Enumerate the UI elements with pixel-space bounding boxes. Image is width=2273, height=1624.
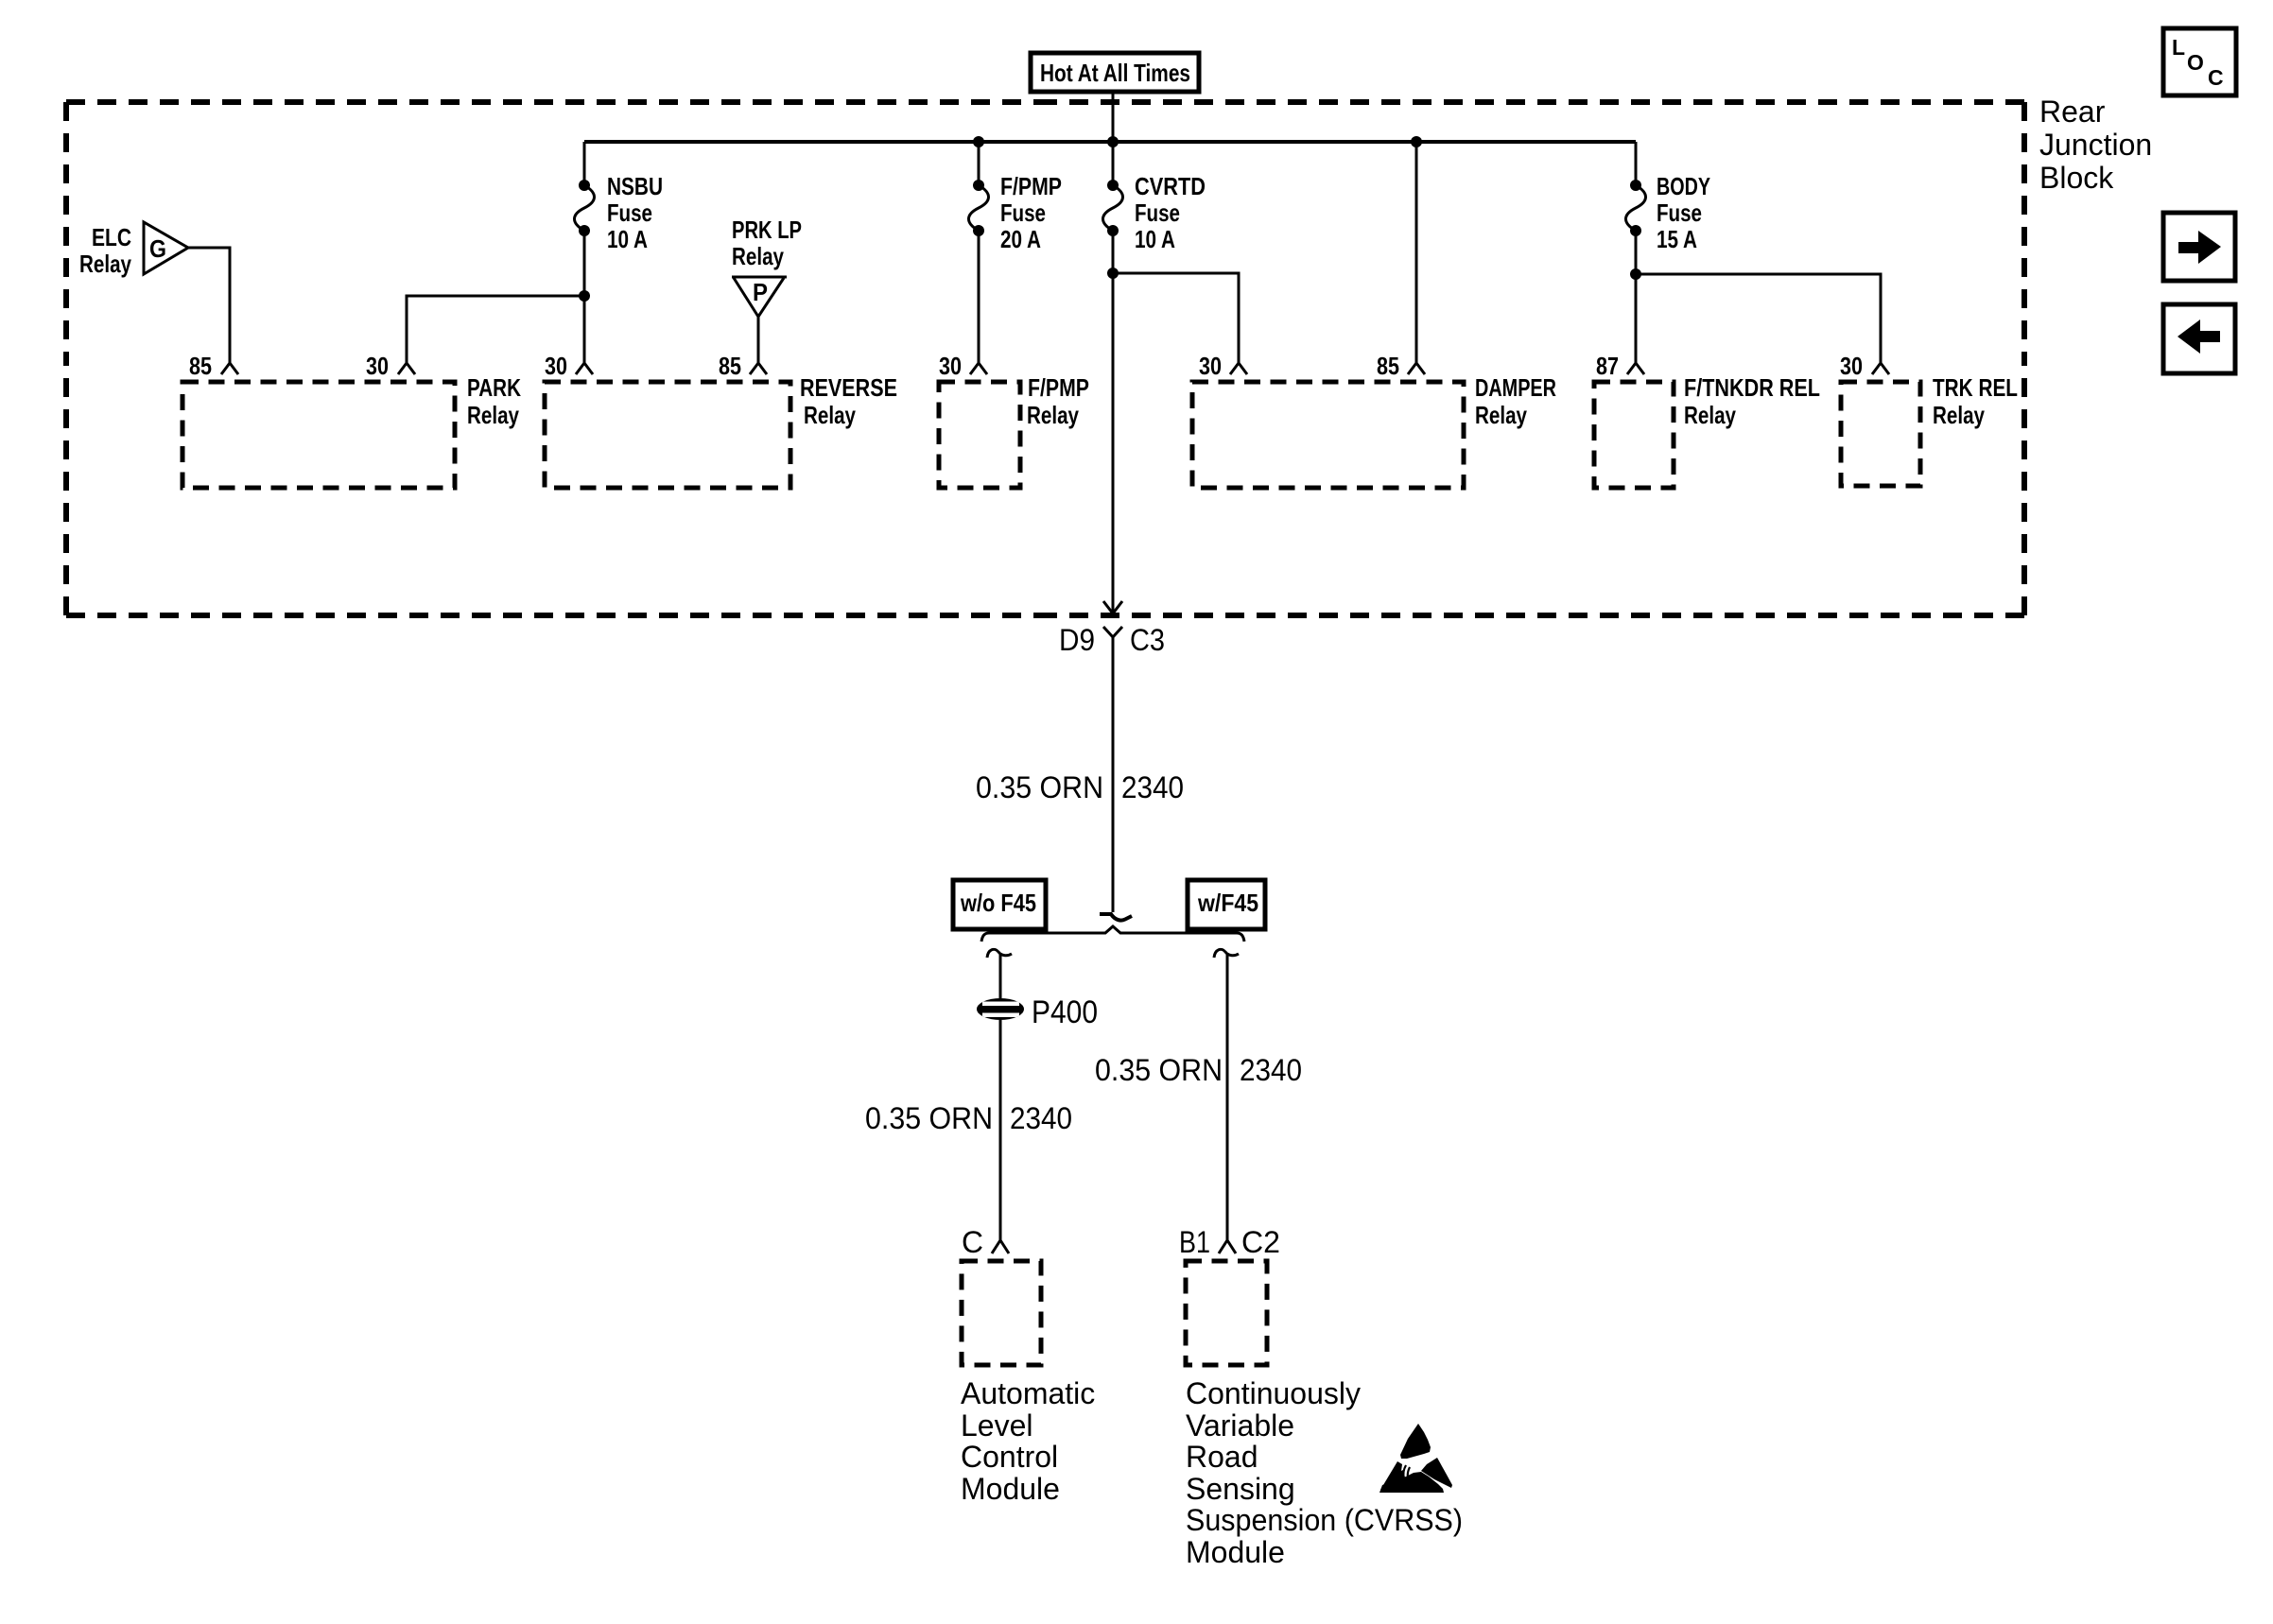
svg-text:Automatic: Automatic — [961, 1376, 1095, 1410]
svg-text:Relay: Relay — [1027, 401, 1079, 429]
svg-text:Relay: Relay — [1475, 401, 1527, 429]
svg-text:Variable: Variable — [1186, 1408, 1294, 1443]
fuse F/PMP — [969, 180, 989, 236]
svg-text:2340: 2340 — [1240, 1053, 1302, 1087]
connector fork: PARK 85 — [221, 363, 238, 374]
LOC legend box — [2163, 28, 2236, 95]
break symbol on wire — [1100, 914, 1132, 921]
wire: bus drop to NSBU fuse — [583, 142, 586, 185]
svg-text:Relay: Relay — [79, 250, 131, 278]
svg-text:Rear: Rear — [2039, 95, 2106, 129]
connector fork: PARK 30 — [398, 363, 415, 374]
svg-text:w/o F45: w/o F45 — [960, 889, 1036, 917]
svg-text:Continuously: Continuously — [1186, 1376, 1361, 1410]
svg-text:L: L — [2172, 35, 2185, 60]
node: junction CVRTD/DAMPER30 — [1107, 268, 1119, 279]
label: DAMPER Relay — [1475, 373, 1556, 429]
node: bus junction F/PMP — [973, 136, 984, 147]
wire: CVRTD fuse down to arrow — [1112, 231, 1115, 613]
connector fork: ALC pin C — [992, 1240, 1009, 1253]
wire: right branch to CVRSS module — [1226, 953, 1229, 1240]
svg-text:20 A: 20 A — [1000, 225, 1041, 253]
svg-text:0.35 ORN: 0.35 ORN — [865, 1101, 993, 1135]
svg-text:10 A: 10 A — [1135, 225, 1175, 253]
connector fork: DAMPER 85 — [1408, 363, 1425, 374]
connector curl: right branch — [1214, 949, 1239, 958]
fuse CVRTD — [1103, 180, 1123, 236]
connector fork: REVERSE 30 — [576, 363, 593, 374]
svg-text:Relay: Relay — [804, 401, 856, 429]
svg-text:G: G — [149, 234, 166, 263]
svg-text:Control: Control — [961, 1440, 1058, 1474]
label: NSBU Fuse 10 A — [607, 172, 663, 253]
svg-text:DAMPER: DAMPER — [1475, 373, 1556, 402]
svg-text:30: 30 — [1840, 352, 1863, 380]
wire: branch to DAMPER pin 30 — [1113, 273, 1239, 363]
connector fork: REVERSE 85 — [750, 363, 767, 374]
svg-text:Hot At All Times: Hot At All Times — [1040, 59, 1190, 87]
svg-text:PRK LP: PRK LP — [732, 216, 802, 244]
svg-text:30: 30 — [939, 352, 962, 380]
connector fork: F/TNKDR 87 — [1627, 363, 1644, 374]
svg-text:B1: B1 — [1179, 1225, 1210, 1259]
wire: DAMPER pin 85 riser — [1415, 142, 1418, 363]
node: junction NSBU/PARK30 — [579, 290, 590, 302]
svg-text:Level: Level — [961, 1408, 1033, 1443]
svg-text:0.35 ORN: 0.35 ORN — [976, 770, 1103, 804]
svg-text:CVRTD: CVRTD — [1135, 172, 1206, 200]
wire: bus drop to F/PMP fuse — [978, 142, 980, 185]
connector fork: TRK REL 30 — [1872, 363, 1889, 374]
wire: left branch to P400 — [999, 953, 1002, 998]
connector D9/C3 fork — [1103, 627, 1122, 912]
svg-text:C: C — [962, 1225, 983, 1259]
svg-text:F/TNKDR REL: F/TNKDR REL — [1684, 373, 1820, 402]
svg-text:Fuse: Fuse — [1657, 199, 1702, 227]
legend: right arrow box — [2163, 213, 2235, 281]
svg-text:NSBU: NSBU — [607, 172, 663, 200]
icon: ESD sensitive symbol — [1379, 1424, 1452, 1493]
label: Continuously Variable Road Sensing Suspension (CVRSS) Module — [1186, 1376, 1463, 1569]
svg-text:85: 85 — [1377, 352, 1399, 380]
svg-text:2340: 2340 — [1121, 770, 1184, 804]
svg-text:TRK REL: TRK REL — [1933, 373, 2018, 402]
svg-text:Module: Module — [961, 1472, 1060, 1506]
wire: ELC relay to PARK pin 85 — [188, 248, 230, 363]
svg-text:C2: C2 — [1241, 1225, 1280, 1259]
svg-text:85: 85 — [189, 352, 212, 380]
node: junction BODY/TRK30 — [1630, 268, 1641, 280]
wire: P400 to ALC module — [999, 1020, 1002, 1240]
svg-text:Fuse: Fuse — [1135, 199, 1180, 227]
svg-text:2340: 2340 — [1010, 1101, 1072, 1135]
svg-text:Road: Road — [1186, 1440, 1258, 1474]
relay box F/TNKDR REL — [1594, 382, 1674, 488]
label: REVERSE Relay — [800, 373, 897, 429]
svg-text:Suspension (CVRSS): Suspension (CVRSS) — [1186, 1503, 1463, 1537]
connector curl: left branch — [987, 949, 1012, 958]
Rear Junction Block dashed boundary — [66, 102, 2024, 615]
svg-text:Fuse: Fuse — [607, 199, 652, 227]
fuse NSBU — [575, 180, 595, 236]
svg-text:F/PMP: F/PMP — [1000, 172, 1062, 200]
svg-text:Junction: Junction — [2039, 128, 2152, 162]
wire: BODY fuse to F/TNKDR pin 87 — [1635, 231, 1638, 363]
svg-text:Module: Module — [1186, 1535, 1285, 1569]
svg-text:30: 30 — [1199, 352, 1222, 380]
svg-text:PARK: PARK — [467, 373, 521, 402]
module box: Automatic Level Control Module — [962, 1261, 1041, 1365]
svg-text:30: 30 — [545, 352, 567, 380]
label: PRK LP Relay — [732, 216, 802, 270]
relay box PARK — [182, 382, 455, 488]
svg-text:Fuse: Fuse — [1000, 199, 1046, 227]
svg-text:Block: Block — [2039, 161, 2114, 195]
svg-text:P: P — [753, 278, 768, 306]
label: wire 0.35 ORN 2340 (middle) — [976, 770, 1184, 804]
svg-text:w/F45: w/F45 — [1197, 889, 1258, 917]
svg-text:Relay: Relay — [732, 242, 784, 270]
svg-text:15 A: 15 A — [1657, 225, 1697, 253]
relay box DAMPER — [1192, 382, 1464, 488]
label: wire 0.35 ORN 2340 (right) — [1095, 1053, 1302, 1087]
wire: branch to PARK pin 30 — [407, 296, 584, 363]
label: BODY Fuse 15 A — [1657, 172, 1710, 253]
svg-text:O: O — [2187, 50, 2204, 75]
label: TRK REL Relay — [1933, 373, 2018, 429]
label: Rear Junction Block — [2039, 95, 2152, 195]
connector fork: F/PMP 30 — [970, 363, 987, 374]
ELC relay symbol G — [144, 222, 188, 274]
svg-text:ELC: ELC — [92, 223, 131, 251]
arrow: wire exits junction block — [1103, 601, 1122, 613]
relay box F/PMP — [939, 382, 1020, 488]
relay box TRK REL — [1841, 382, 1920, 486]
connector fork: CVRSS pins B1/C2 — [1219, 1240, 1236, 1253]
svg-text:Relay: Relay — [1684, 401, 1736, 429]
svg-text:10 A: 10 A — [607, 225, 648, 253]
label: wire 0.35 ORN 2340 (left) — [865, 1101, 1072, 1135]
brace: wire splits to options — [981, 926, 1244, 942]
PRK LP relay symbol P — [732, 277, 787, 317]
svg-text:Sensing: Sensing — [1186, 1472, 1295, 1506]
svg-text:D9: D9 — [1059, 623, 1095, 657]
svg-text:85: 85 — [719, 352, 741, 380]
node: bus junction DAMPER 85 — [1411, 136, 1422, 147]
wire: feed from Hot At All Times box to bus — [1112, 92, 1115, 142]
wire: CVRTD fuse column — [1112, 142, 1115, 185]
svg-text:30: 30 — [366, 352, 389, 380]
svg-text:P400: P400 — [1032, 994, 1098, 1030]
svg-text:C3: C3 — [1130, 623, 1165, 657]
node: bus junction CVRTD — [1107, 136, 1119, 147]
label: F/TNKDR REL Relay — [1684, 373, 1820, 429]
svg-text:Relay: Relay — [1933, 401, 1985, 429]
fuse BODY — [1626, 180, 1646, 236]
label: F/PMP Fuse 20 A — [1000, 172, 1062, 253]
label box: Hot At All Times — [1031, 53, 1199, 92]
label: Automatic Level Control Module — [961, 1376, 1095, 1506]
wire: PRK LP relay to REVERSE pin 85 — [757, 317, 760, 363]
wire: bus elbow down to BODY fuse — [1635, 142, 1638, 185]
wire: F/PMP fuse to F/PMP relay pin 30 — [978, 231, 980, 363]
legend: left arrow box — [2163, 304, 2235, 373]
label: F/PMP Relay — [1027, 373, 1089, 429]
svg-text:0.35 ORN: 0.35 ORN — [1095, 1053, 1223, 1087]
svg-text:BODY: BODY — [1657, 172, 1710, 200]
svg-text:Relay: Relay — [467, 401, 519, 429]
label: PARK Relay — [467, 373, 521, 429]
wire: main bus — [584, 140, 1636, 144]
connector fork: DAMPER 30 — [1230, 363, 1247, 374]
label: CVRTD Fuse 10 A — [1135, 172, 1206, 253]
wire: NSBU fuse to REVERSE pin 30 — [583, 231, 586, 363]
option box: w/o F45 — [953, 880, 1046, 929]
svg-text:REVERSE: REVERSE — [800, 373, 897, 402]
svg-text:87: 87 — [1596, 352, 1619, 380]
label: ELC Relay — [79, 223, 131, 278]
splice P400 — [977, 998, 1024, 1020]
svg-text:C: C — [2208, 65, 2224, 90]
wire: branch to TRK REL pin 30 — [1636, 274, 1881, 363]
option box: w/F45 — [1188, 880, 1265, 929]
svg-text:F/PMP: F/PMP — [1028, 373, 1089, 402]
relay box REVERSE — [545, 382, 790, 488]
module box: CVRSS Module — [1186, 1261, 1267, 1365]
